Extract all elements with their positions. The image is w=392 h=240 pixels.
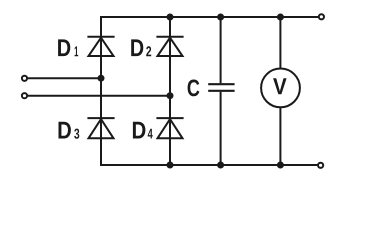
wire bottom bus	[100, 164, 318, 166]
label C	[188, 80, 200, 97]
node input lower junction	[167, 92, 174, 99]
wire left branch (D1/D3)	[100, 16, 102, 166]
node bottom voltmeter branch	[277, 162, 284, 169]
wire input lower	[28, 95, 170, 97]
node input upper junction	[98, 75, 105, 82]
terminal input upper	[22, 76, 27, 81]
diode D4	[156, 118, 183, 138]
node top voltmeter branch	[277, 14, 284, 21]
wire capacitor branch lower	[220, 92, 222, 165]
diode D2	[156, 37, 183, 56]
wire voltmeter branch upper	[279, 17, 281, 68]
diode D1	[87, 37, 114, 56]
terminal output top	[319, 14, 324, 19]
wire voltmeter branch lower	[279, 108, 281, 166]
node bottom capacitor branch	[217, 162, 224, 169]
label D3	[59, 122, 80, 139]
node top capacitor branch	[217, 14, 224, 21]
terminal input lower	[22, 93, 27, 98]
label D4	[133, 122, 153, 139]
label D2	[131, 39, 151, 56]
node top D2 branch	[167, 14, 174, 21]
terminal output bottom	[318, 163, 323, 168]
capacitor C plates	[208, 84, 234, 91]
node bottom D2 branch	[167, 162, 174, 169]
wire input upper	[28, 77, 101, 79]
wire top bus	[100, 16, 319, 18]
wire second branch (D2/D4)	[169, 17, 171, 165]
label D1	[58, 39, 78, 56]
wire capacitor branch upper	[220, 17, 222, 83]
voltmeter V	[261, 69, 300, 108]
diode D3	[87, 118, 114, 138]
